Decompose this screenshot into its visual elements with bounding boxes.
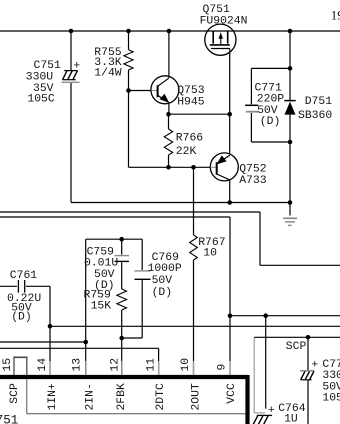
svg-text:D751: D751 xyxy=(305,96,333,108)
svg-text:105C: 105C xyxy=(27,94,55,106)
svg-text:50V: 50V xyxy=(94,269,115,281)
svg-text:C751: C751 xyxy=(34,60,62,72)
svg-text:H945: H945 xyxy=(177,97,205,109)
svg-text:15K: 15K xyxy=(91,301,112,313)
svg-text:50V: 50V xyxy=(152,275,173,287)
svg-text:1U: 1U xyxy=(284,413,298,424)
svg-text:1/4W: 1/4W xyxy=(94,68,122,80)
svg-text:FU9024N: FU9024N xyxy=(200,16,248,28)
svg-text:C761: C761 xyxy=(10,270,38,282)
svg-text:C769: C769 xyxy=(152,252,180,264)
svg-text:220P: 220P xyxy=(257,94,285,106)
svg-text:Q751: Q751 xyxy=(203,4,231,16)
svg-text:SCP: SCP xyxy=(286,341,307,353)
svg-text:R766: R766 xyxy=(176,132,204,144)
svg-text:50V: 50V xyxy=(257,105,278,117)
svg-text:1000P: 1000P xyxy=(148,263,182,275)
svg-text:(D): (D) xyxy=(11,312,32,324)
svg-text:0.01U: 0.01U xyxy=(84,258,118,270)
svg-text:+: + xyxy=(268,405,275,417)
svg-text:10: 10 xyxy=(203,247,217,259)
svg-text:11: 11 xyxy=(146,358,158,372)
svg-text:10: 10 xyxy=(180,358,192,372)
svg-text:VCC: VCC xyxy=(226,383,238,404)
svg-text:2FBK: 2FBK xyxy=(116,383,128,411)
svg-text:15: 15 xyxy=(2,358,14,372)
svg-text:2IN-: 2IN- xyxy=(85,383,97,410)
svg-text:13: 13 xyxy=(72,358,84,372)
svg-text:19: 19 xyxy=(331,7,340,22)
svg-text:C771: C771 xyxy=(255,82,283,94)
svg-text:2OUT: 2OUT xyxy=(190,383,202,411)
svg-text:330U: 330U xyxy=(26,71,54,83)
svg-text:330U: 330U xyxy=(322,370,340,382)
svg-text:A733: A733 xyxy=(239,175,267,187)
svg-text:C759: C759 xyxy=(87,247,115,259)
svg-text:C772: C772 xyxy=(322,359,340,371)
svg-text:1IN+: 1IN+ xyxy=(47,383,59,411)
svg-text:22K: 22K xyxy=(176,146,197,158)
svg-text:(D): (D) xyxy=(260,116,281,128)
svg-text:12: 12 xyxy=(109,358,121,372)
svg-text:751: 751 xyxy=(0,413,18,424)
svg-text:Q753: Q753 xyxy=(177,85,205,97)
svg-text:SCP: SCP xyxy=(9,383,21,404)
svg-text:Q752: Q752 xyxy=(239,164,267,176)
svg-text:+: + xyxy=(73,60,80,72)
svg-text:(D): (D) xyxy=(152,287,173,299)
svg-text:9: 9 xyxy=(217,364,229,371)
svg-text:14: 14 xyxy=(37,358,49,372)
svg-text:105C: 105C xyxy=(322,393,340,405)
svg-text:SB360: SB360 xyxy=(298,110,332,122)
svg-text:+: + xyxy=(311,360,318,372)
svg-text:2DTC: 2DTC xyxy=(155,383,167,411)
svg-text:50V: 50V xyxy=(322,382,340,394)
